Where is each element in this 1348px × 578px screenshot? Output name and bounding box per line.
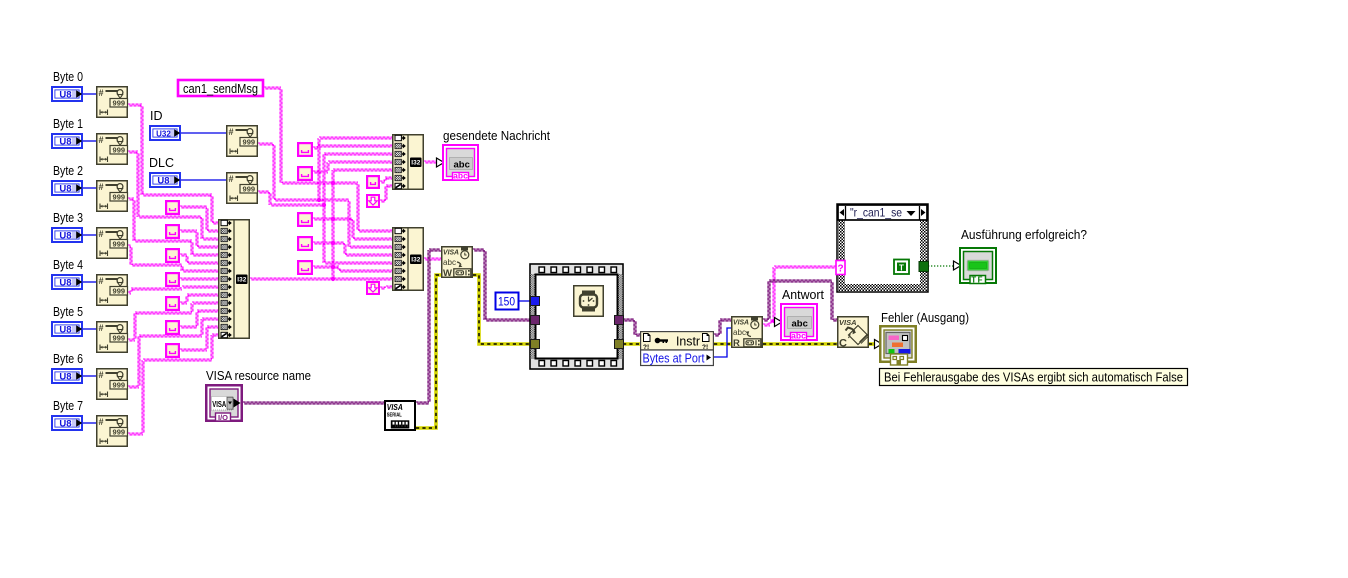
svg-text:I32: I32 (411, 160, 420, 167)
svg-text:?!: ?! (643, 344, 649, 351)
string constant can1_sendMsg (178, 80, 263, 96)
wire line-feed constant 2 (380, 286, 393, 289)
svg-text:"r_can1_se: "r_can1_se (850, 205, 902, 219)
svg-text:Byte 4: Byte 4 (53, 258, 83, 272)
wire bottom concatenate output to VISA Write (424, 258, 441, 260)
svg-text:Byte 0: Byte 0 (53, 70, 83, 84)
control Byte 6 (U8) (52, 369, 82, 383)
wire space constant 7 to concatenate (180, 326, 219, 351)
wire DLC control to conversion node (181, 179, 226, 181)
wire space constant 2 to concatenate (180, 230, 219, 248)
wire Byte 0 string to concatenate (128, 104, 219, 224)
wire Byte 5 control to conversion node (83, 328, 96, 330)
svg-text:U8: U8 (59, 137, 71, 148)
wire space constant B2 (313, 161, 393, 173)
wire space constant B4 (313, 242, 393, 256)
wire ID string to concatenate nodes (258, 143, 393, 248)
space string constant A2 (166, 225, 179, 238)
tunnel error left (531, 340, 540, 349)
svg-text:TF: TF (971, 275, 984, 284)
wire Byte 2 string to concatenate (128, 198, 219, 256)
wire error sequence to property node (623, 342, 640, 346)
wire Byte 6 string to concatenate (128, 318, 219, 388)
svg-text:?: ? (837, 264, 843, 275)
svg-text:#: # (99, 323, 104, 333)
wire case tunnel to Ausfuehrung indicator (928, 265, 959, 267)
svg-text:#: # (99, 88, 104, 98)
svg-text:abc: abc (791, 331, 806, 341)
case output tunnel (919, 262, 929, 272)
wire DLC string to concatenate nodes (258, 191, 393, 264)
control Byte 1 (U8) (52, 134, 82, 148)
svg-text:abc: abc (443, 258, 456, 267)
space string constant B5 (298, 261, 312, 274)
control Byte 4 (U8) (52, 275, 82, 289)
number-to-string node for Byte 7 (97, 416, 128, 447)
wire combined byte string branch up (332, 169, 393, 279)
number-to-string node for Byte 3 (97, 228, 128, 259)
indicator Fehler (Ausgang) (875, 326, 916, 365)
wire error VISA Close to Fehler indicator (869, 342, 879, 346)
wire Byte 5 string to concatenate (128, 302, 219, 341)
wire ID string branch up (318, 137, 393, 200)
svg-text:U8: U8 (59, 372, 71, 383)
number-to-string node for Byte 1 (97, 134, 128, 165)
svg-text:C: C (839, 338, 847, 350)
svg-text:999: 999 (243, 138, 256, 147)
wire VISA resource to VISA Configure Serial (243, 402, 384, 404)
space string constant B3 (298, 213, 312, 226)
wire tunnel to Wait ms (539, 300, 573, 302)
svg-text:VISA: VISA (839, 318, 857, 327)
wire Bytes at Port to VISA Read count (714, 328, 731, 357)
wire space constant 1 to concatenate (180, 206, 219, 232)
wire Byte 6 control to conversion node (83, 375, 96, 377)
wire Byte 3 control to conversion node (83, 234, 96, 236)
svg-text:#: # (229, 127, 234, 137)
space string constant B4 (298, 237, 312, 250)
wire top concatenate output to gesendete Nachricht (424, 161, 441, 163)
wire Byte 1 control to conversion node (83, 140, 96, 142)
boolean constant True (894, 260, 909, 275)
wire space constant B1 (313, 145, 393, 149)
svg-text:U8: U8 (157, 176, 169, 187)
svg-text:999: 999 (113, 240, 126, 249)
svg-text:Fehler (Ausgang): Fehler (Ausgang) (881, 311, 969, 325)
control Byte 3 (U8) (52, 228, 82, 242)
VISA Configure Serial Port node (385, 401, 415, 430)
svg-text:DLC: DLC (149, 156, 174, 170)
case structure r_can1_se (837, 204, 928, 292)
svg-text:I32: I32 (411, 257, 420, 264)
svg-text:VISA: VISA (212, 400, 226, 409)
svg-text:999: 999 (113, 428, 126, 437)
control DLC (U8) (150, 173, 180, 187)
wire space constant 6 to concatenate (180, 310, 219, 328)
svg-text:U8: U8 (59, 90, 71, 101)
svg-text:#: # (99, 417, 104, 427)
wire space constant 3 to concatenate (180, 254, 219, 264)
svg-text:Byte 1: Byte 1 (53, 117, 83, 131)
wire error VISA Read to VISA Close (763, 342, 837, 346)
svg-text:I/O: I/O (218, 413, 228, 422)
wire VISA Serial to VISA Write reference (416, 249, 441, 404)
svg-text:W: W (443, 268, 452, 279)
control Byte 7 (U8) (52, 416, 82, 430)
free label annotation (880, 369, 1188, 386)
svg-text:Byte 5: Byte 5 (53, 305, 83, 319)
svg-text:abc: abc (792, 318, 808, 329)
indicator Ausfuehrung erfolgreich (954, 248, 997, 284)
space string constant A4 (166, 273, 179, 286)
wire VISA reference inside sequence (539, 319, 615, 321)
wire space constant B5 (313, 266, 393, 272)
svg-text:999: 999 (113, 287, 126, 296)
tunnel error right (615, 340, 624, 349)
svg-text:999: 999 (113, 99, 126, 108)
svg-text:#: # (99, 229, 104, 239)
wire Byte 7 string to concatenate (128, 334, 219, 435)
wire ID control to conversion node (181, 132, 226, 134)
number-to-string node for Byte 2 (97, 181, 128, 212)
control Byte 5 (U8) (52, 322, 82, 336)
control ID (U32) (150, 126, 180, 140)
property node Instr / Bytes at Port (641, 332, 714, 366)
svg-text:VISA: VISA (387, 403, 403, 412)
wire space constant near top concat (380, 177, 393, 183)
indicator Antwort (775, 304, 818, 341)
svg-text:gesendete Nachricht: gesendete Nachricht (443, 129, 550, 143)
number-to-string node for Byte 0 (97, 87, 128, 118)
svg-text:Bei Fehlerausgabe des VISAs er: Bei Fehlerausgabe des VISAs ergibt sich … (884, 371, 1183, 385)
svg-text:T: T (899, 263, 904, 272)
svg-text:U8: U8 (59, 278, 71, 289)
wire can1_sendMsg constant to concatenate nodes (264, 87, 393, 232)
wire sequence to property node reference (623, 319, 640, 336)
wire VISA Write to sequence tunnel reference (473, 249, 530, 321)
svg-text:U8: U8 (59, 419, 71, 430)
number-to-string node for Byte 5 (97, 322, 128, 353)
concatenate strings top (7 inputs) (393, 135, 424, 190)
wire space constant 4 to concatenate (180, 278, 219, 280)
svg-text:Ausführung erfolgreich?: Ausführung erfolgreich? (961, 228, 1087, 242)
wire space constant 5 to concatenate (180, 294, 219, 304)
wire line-feed constant 1 (380, 185, 393, 202)
svg-text:Bytes at Port: Bytes at Port (643, 352, 705, 366)
indicator gesendete Nachricht (437, 145, 479, 181)
svg-text:?!: ?! (702, 344, 708, 351)
svg-text:150: 150 (498, 295, 515, 309)
wire error property node to VISA Read (714, 342, 731, 346)
svg-text:SERIAL: SERIAL (387, 413, 402, 419)
wire branch to Antwort (774, 320, 780, 322)
control Byte 0 (U8) (52, 87, 82, 101)
wire True constant to case tunnel (909, 265, 919, 267)
tunnel blue into sequence (531, 297, 540, 306)
wire error inside sequence (539, 342, 615, 346)
space string constant A5 (166, 297, 179, 310)
svg-text:#: # (99, 182, 104, 192)
concatenate strings bottom (8 inputs) (393, 228, 424, 291)
svg-text:U32: U32 (156, 130, 171, 139)
tunnel purple left (531, 316, 540, 325)
svg-text:Instr: Instr (676, 334, 700, 348)
case selector terminal ? (836, 261, 845, 275)
svg-text:U8: U8 (59, 184, 71, 195)
control VISA resource name (206, 385, 242, 422)
VISA Close node (838, 317, 869, 350)
svg-text:Byte 7: Byte 7 (53, 399, 83, 413)
wire Byte 1 string to concatenate (128, 151, 219, 240)
wire 150 constant to sequence tunnel (519, 300, 531, 302)
wire space constant B3 (313, 218, 393, 240)
numeric constant 150 (496, 293, 519, 310)
svg-text:VISA: VISA (733, 318, 749, 327)
svg-text:999: 999 (113, 381, 126, 390)
svg-text:I32: I32 (237, 277, 246, 284)
wire Byte 7 control to conversion node (83, 422, 96, 424)
svg-text:999: 999 (243, 185, 256, 194)
junction Antwort branch (772, 319, 776, 323)
wire Byte 2 control to conversion node (83, 187, 96, 189)
svg-text:999: 999 (113, 334, 126, 343)
junction ID branch (317, 198, 321, 202)
svg-text:#: # (229, 174, 234, 184)
number-to-string node for DLC (227, 173, 258, 204)
wire VISA Read to VISA Close reference (763, 280, 837, 321)
junction DLC branch (322, 203, 326, 207)
svg-text:#: # (99, 276, 104, 286)
wire Byte 0 control to conversion node (83, 93, 96, 95)
svg-text:abc: abc (453, 171, 468, 181)
wire Byte 3 string to concatenate (128, 245, 219, 272)
svg-text:#: # (99, 370, 104, 380)
svg-text:abc: abc (733, 328, 746, 337)
space string constant A1 (166, 201, 179, 214)
space string constant A6 (166, 321, 179, 334)
flat sequence structure (530, 264, 623, 369)
space string constant A3 (166, 249, 179, 262)
space string constant B2 (298, 167, 312, 180)
space string constant A7 (166, 344, 179, 357)
svg-text:Byte 2: Byte 2 (53, 164, 83, 178)
Wait (ms) node (574, 286, 604, 317)
wire VISA Read data out to case selector (763, 266, 836, 326)
space string constant C (367, 176, 379, 188)
line-feed constant 1 (367, 195, 379, 207)
svg-text:U8: U8 (59, 325, 71, 336)
control Byte 2 (U8) (52, 181, 82, 195)
svg-text:#: # (99, 135, 104, 145)
concatenate strings (bytes, 15 inputs) (219, 220, 250, 339)
wire DLC string branch up (323, 153, 393, 205)
junction combined byte string (331, 277, 335, 281)
number-to-string node for Byte 4 (97, 275, 128, 306)
wire error VISA Write to sequence (473, 275, 530, 344)
svg-text:Byte 3: Byte 3 (53, 211, 83, 225)
svg-text:ID: ID (150, 109, 163, 123)
svg-text:R: R (733, 338, 740, 349)
number-to-string node for ID (227, 126, 258, 157)
svg-text:can1_sendMsg: can1_sendMsg (183, 82, 258, 96)
wire Byte 4 control to conversion node (83, 281, 96, 283)
svg-text:VISA: VISA (443, 248, 459, 257)
tunnel purple right (615, 316, 624, 325)
wire property node to VISA Read reference (714, 319, 731, 336)
VISA Write node (442, 247, 473, 279)
wire error VISA Serial to VISA Write (416, 275, 441, 428)
svg-text:Antwort: Antwort (782, 288, 825, 302)
svg-text:Byte 6: Byte 6 (53, 352, 83, 366)
line-feed constant 2 (367, 282, 379, 294)
svg-text:999: 999 (113, 193, 126, 202)
VISA Read node (732, 317, 763, 349)
svg-text:U8: U8 (59, 231, 71, 242)
wire combined byte string (250, 278, 393, 280)
space string constant B1 (298, 143, 312, 156)
number-to-string node for Byte 6 (97, 369, 128, 400)
wire Byte 4 string to concatenate (128, 286, 219, 294)
svg-text:VISA resource name: VISA resource name (206, 369, 311, 383)
svg-text:999: 999 (113, 146, 126, 155)
svg-text:abc: abc (454, 159, 470, 170)
